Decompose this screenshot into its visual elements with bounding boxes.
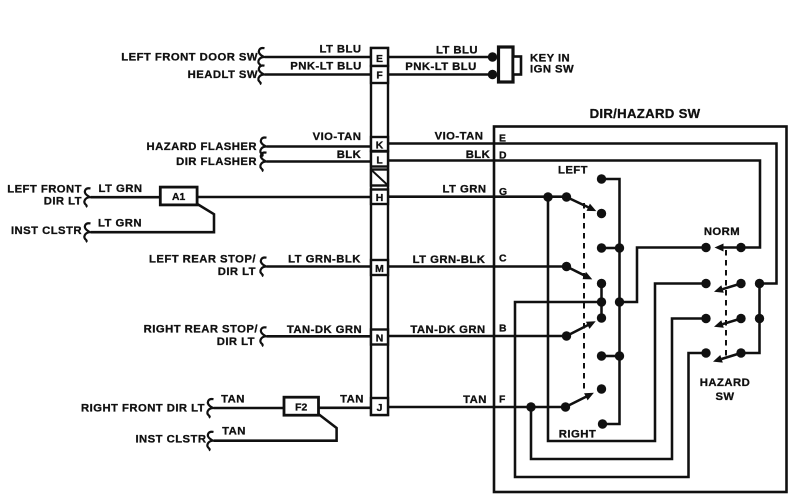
switch arm B bbox=[567, 324, 591, 336]
arrowhead arm C bbox=[583, 272, 593, 280]
fixed contact dot left (G arm) bbox=[597, 209, 606, 218]
connector squiggle row N (right rear stop/dir lt) bbox=[260, 327, 266, 346]
svg-text:LT GRN: LT GRN bbox=[443, 184, 487, 196]
wire LT GRN from H to dir/hazard sw G bbox=[388, 195, 494, 198]
junction dot vertical 302 bbox=[615, 297, 624, 306]
wire LT GRN-BLK from M to dir/hazard sw C bbox=[388, 265, 494, 268]
svg-text:LT GRN: LT GRN bbox=[99, 183, 143, 195]
wire TAN to fuse F2 bbox=[214, 407, 285, 410]
svg-text:A1: A1 bbox=[172, 192, 186, 203]
pivot node arm B bbox=[562, 331, 571, 340]
wire BLK from L to dir/hazard sw D bbox=[388, 159, 494, 162]
connector cell K bbox=[371, 137, 388, 151]
arrowhead arm B bbox=[586, 321, 596, 329]
fixed contact hazard row1 bbox=[701, 243, 710, 252]
svg-text:LEFT FRONT: LEFT FRONT bbox=[7, 184, 82, 196]
svg-text:LT GRN-BLK: LT GRN-BLK bbox=[288, 254, 361, 266]
wire TAN from J to dir/hazard sw F bbox=[388, 406, 494, 409]
bus dot C node bbox=[597, 297, 606, 306]
wire TAN-DK GRN from N to dir/hazard sw B bbox=[388, 335, 494, 338]
svg-text:VIO-TAN: VIO-TAN bbox=[313, 131, 362, 143]
svg-text:TAN: TAN bbox=[221, 393, 245, 405]
stub dot 356 bbox=[597, 351, 606, 360]
stub dot 248 bbox=[597, 243, 606, 252]
svg-text:LT GRN: LT GRN bbox=[98, 218, 142, 230]
svg-text:TAN: TAN bbox=[340, 393, 364, 405]
bulkhead connector strip bbox=[371, 48, 388, 415]
svg-text:F: F bbox=[376, 71, 382, 82]
connector cell M bbox=[371, 260, 388, 275]
fuse F2 box bbox=[284, 397, 319, 415]
junction hazard row3 bbox=[755, 314, 764, 323]
wire B row bbox=[494, 335, 567, 338]
arrowhead arm hazard row3 bbox=[714, 320, 724, 328]
wire TAN-DK GRN to connector N bbox=[267, 335, 372, 338]
svg-text:SW: SW bbox=[715, 391, 734, 403]
connector squiggle inst clstr (upper) bbox=[84, 223, 90, 242]
svg-text:PNK-LT BLU: PNK-LT BLU bbox=[405, 61, 476, 73]
svg-text:J: J bbox=[377, 403, 383, 414]
svg-text:LT BLU: LT BLU bbox=[436, 45, 478, 57]
wire LT GRN inst clstr branch to A1 bbox=[91, 204, 215, 232]
wire stub node 356 bbox=[603, 355, 619, 358]
fixed contact dot C arm bbox=[597, 279, 606, 288]
connector squiggle row F (headlt sw) bbox=[258, 66, 264, 85]
svg-text:TAN-DK GRN: TAN-DK GRN bbox=[287, 324, 362, 336]
connector cell J bbox=[371, 398, 388, 415]
wire VIO-TAN to connector K bbox=[267, 145, 372, 148]
switch arm hazard row4 bbox=[722, 353, 742, 359]
svg-text:D: D bbox=[499, 151, 507, 162]
wire left/right common vertical bbox=[603, 179, 620, 424]
svg-text:INST CLSTR: INST CLSTR bbox=[135, 433, 206, 445]
fixed contact dot B arm bbox=[597, 313, 606, 322]
connector cell slash bbox=[371, 170, 388, 186]
svg-text:G: G bbox=[499, 187, 507, 198]
node RIGHT bottom bbox=[598, 419, 607, 428]
diagonal in slash cell bbox=[372, 170, 387, 184]
wire TAN inst clstr branch to F2 bbox=[214, 414, 337, 441]
connector cell N bbox=[371, 330, 388, 345]
wire C fixed contact bus bbox=[600, 283, 603, 320]
svg-text:F2: F2 bbox=[295, 402, 307, 413]
connector squiggle row M (left rear stop/dir lt) bbox=[260, 258, 266, 277]
pivot hazard row3 bbox=[736, 314, 745, 323]
svg-text:INST CLSTR: INST CLSTR bbox=[11, 225, 82, 237]
connector squiggle row L (dir flasher) bbox=[260, 153, 266, 172]
switch arm hazard row3 bbox=[723, 319, 742, 325]
svg-text:RIGHT: RIGHT bbox=[559, 428, 596, 440]
pivot node arm G bbox=[562, 192, 571, 201]
wire C node to hazard row4 fixed contact bbox=[515, 302, 705, 477]
terminal dot key-in row F bbox=[488, 70, 497, 79]
svg-text:IGN SW: IGN SW bbox=[530, 63, 574, 75]
svg-text:DIR LT: DIR LT bbox=[217, 336, 255, 348]
switch arm F bbox=[566, 396, 589, 408]
junction node F branch bbox=[526, 402, 535, 411]
svg-text:TAN: TAN bbox=[463, 394, 487, 406]
svg-text:F: F bbox=[499, 395, 505, 406]
svg-text:B: B bbox=[499, 323, 507, 334]
node LEFT top bbox=[597, 174, 606, 183]
pivot hazard row2 bbox=[736, 279, 745, 288]
fixed contact hazard row3 bbox=[701, 314, 710, 323]
wire LT BLU from E to key-in-ign connector bbox=[388, 56, 490, 59]
key-in ign sw connector body bbox=[499, 47, 514, 82]
connector squiggle right front dir lt bbox=[207, 399, 213, 418]
dashed gang link hazard switch bbox=[725, 250, 727, 359]
key-in ign sw connector tab bbox=[513, 57, 521, 75]
switch arm hazard row2 bbox=[723, 284, 742, 290]
svg-text:LEFT: LEFT bbox=[558, 164, 588, 176]
wire LT BLU to connector E bbox=[265, 56, 372, 59]
pivot hazard row4 bbox=[736, 348, 745, 357]
junction dot vertical 356 bbox=[615, 351, 624, 360]
fixed contact hazard row4 bbox=[701, 348, 710, 357]
svg-text:LEFT FRONT DOOR SW: LEFT FRONT DOOR SW bbox=[121, 52, 258, 64]
svg-text:LEFT REAR STOP/: LEFT REAR STOP/ bbox=[149, 253, 256, 265]
wire VIO-TAN from K to dir/hazard sw E bbox=[388, 142, 494, 145]
svg-text:N: N bbox=[376, 333, 384, 344]
wire G row bbox=[494, 195, 567, 198]
svg-text:E: E bbox=[499, 134, 506, 145]
svg-text:H: H bbox=[376, 193, 384, 204]
connector cell L bbox=[371, 152, 388, 167]
pivot node arm C bbox=[562, 262, 571, 271]
switch arm C bbox=[567, 267, 587, 277]
svg-text:BLK: BLK bbox=[466, 149, 491, 161]
svg-text:K: K bbox=[376, 140, 384, 151]
junction dot vertical 248 bbox=[615, 243, 624, 252]
connector squiggle left front dir lt bbox=[84, 188, 90, 207]
svg-text:LT GRN-BLK: LT GRN-BLK bbox=[413, 254, 486, 266]
wire LT GRN-BLK to connector M bbox=[267, 265, 372, 268]
svg-text:BLK: BLK bbox=[337, 149, 362, 161]
svg-text:LT BLU: LT BLU bbox=[319, 44, 361, 56]
svg-text:HEADLT SW: HEADLT SW bbox=[188, 69, 258, 81]
svg-text:C: C bbox=[499, 254, 507, 265]
wire PNK-LT BLU to connector F bbox=[265, 73, 372, 76]
connector squiggle row K (hazard flasher) bbox=[260, 138, 266, 157]
svg-text:HAZARD FLASHER: HAZARD FLASHER bbox=[147, 141, 257, 153]
wire TAN from F2 to connector J bbox=[319, 407, 372, 410]
dir/hazard sw box outline bbox=[494, 127, 787, 493]
wire C row bbox=[494, 265, 567, 268]
svg-text:DIR/HAZARD SW: DIR/HAZARD SW bbox=[590, 106, 701, 121]
arrowhead arm G bbox=[587, 204, 597, 212]
wire norm fixed contact to node bbox=[621, 248, 706, 303]
wire BLK to connector L bbox=[267, 160, 372, 163]
pivot node arm F bbox=[561, 402, 570, 411]
wire stub node 248 bbox=[603, 247, 619, 250]
wire G branch to hazard row2 fixed contact bbox=[548, 197, 705, 441]
arrowhead arm hazard row2 bbox=[714, 285, 724, 293]
terminal dot key-in row E bbox=[488, 52, 497, 61]
wire LT GRN to fuse A1 bbox=[91, 196, 161, 199]
connector cell F bbox=[371, 66, 388, 83]
wire LT GRN from A1 to connector H bbox=[197, 196, 371, 199]
connector squiggle inst clstr (lower) bbox=[207, 432, 213, 451]
svg-text:TAN: TAN bbox=[222, 426, 246, 438]
wire D to norm contact arm bbox=[494, 161, 760, 248]
svg-text:HAZARD: HAZARD bbox=[700, 377, 750, 389]
junction hazard row2 bbox=[755, 279, 764, 288]
svg-text:TAN-DK GRN: TAN-DK GRN bbox=[410, 324, 485, 336]
svg-text:DIR FLASHER: DIR FLASHER bbox=[176, 156, 257, 168]
wire PNK-LT BLU from F to key-in-ign connector bbox=[388, 73, 490, 76]
fuse A1 box bbox=[160, 187, 197, 205]
junction node G branch bbox=[543, 192, 552, 201]
fixed contact hazard row2 bbox=[701, 279, 710, 288]
svg-text:DIR LT: DIR LT bbox=[44, 195, 82, 207]
switch arm G (left turn) bbox=[567, 197, 591, 209]
svg-text:RIGHT FRONT DIR LT: RIGHT FRONT DIR LT bbox=[81, 402, 205, 414]
svg-text:L: L bbox=[376, 155, 383, 166]
connector cell E bbox=[371, 48, 388, 66]
pivot hazard row1 bbox=[736, 243, 745, 252]
connector squiggle row E (left front door sw) bbox=[258, 48, 264, 67]
arrowhead arm norm bbox=[715, 244, 724, 252]
dashed gang link dir switch bbox=[583, 203, 585, 392]
wire E to hazard sw common (right loop) bbox=[494, 144, 777, 354]
wire F row bbox=[494, 406, 566, 409]
wire F branch to hazard row3 fixed contact bbox=[531, 319, 705, 460]
arrowhead arm hazard row4 bbox=[713, 355, 723, 363]
svg-text:VIO-TAN: VIO-TAN bbox=[435, 131, 484, 143]
connector cell H bbox=[371, 190, 388, 205]
svg-text:PNK-LT BLU: PNK-LT BLU bbox=[290, 60, 361, 72]
svg-text:DIR LT: DIR LT bbox=[218, 266, 256, 278]
switch arm norm (closed) bbox=[723, 246, 741, 249]
fixed contact dot F arm bbox=[597, 384, 606, 393]
arrowhead arm F bbox=[584, 393, 594, 401]
svg-text:RIGHT REAR STOP/: RIGHT REAR STOP/ bbox=[144, 324, 259, 336]
svg-text:M: M bbox=[375, 264, 384, 275]
svg-text:E: E bbox=[376, 54, 383, 65]
svg-text:NORM: NORM bbox=[704, 226, 740, 238]
